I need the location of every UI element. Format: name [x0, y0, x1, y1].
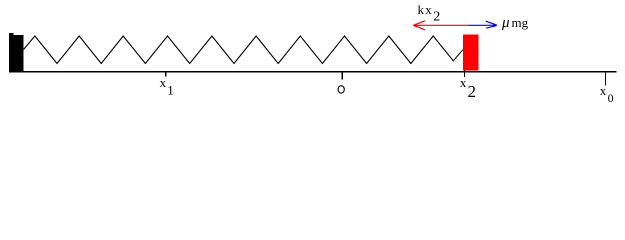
svg-text:x: x: [460, 75, 467, 90]
wall block (fixed support, left): [9, 33, 23, 73]
tick x0: [605, 72, 606, 85]
spring-force arrow (red, pointing left): [413, 21, 469, 30]
friction arrow (blue, pointing right): [468, 21, 497, 28]
svg-text:1: 1: [167, 83, 174, 98]
svg-text:x: x: [425, 2, 432, 17]
mass block (red) at x2: [463, 34, 479, 70]
svg-text:0: 0: [608, 91, 614, 105]
axis line (x-axis): [10, 71, 617, 73]
svg-text:2: 2: [468, 82, 477, 101]
svg-text:mg: mg: [512, 15, 529, 30]
tick O (origin): [342, 72, 343, 80]
svg-text:2: 2: [433, 9, 440, 24]
spring (zigzag between wall and mass): [24, 36, 463, 64]
svg-text:x: x: [600, 83, 607, 98]
tick x1: [165, 72, 166, 77]
svg-text:x: x: [160, 75, 167, 90]
label O (origin circle): [338, 86, 344, 94]
tick x2: [464, 71, 465, 77]
svg-text:μ: μ: [501, 15, 510, 31]
svg-text:k: k: [418, 2, 425, 17]
